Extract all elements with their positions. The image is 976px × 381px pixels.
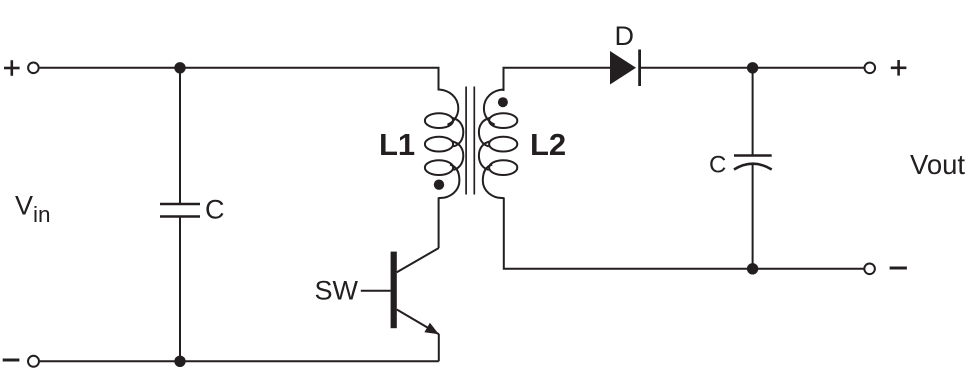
transformer primary winding L1 xyxy=(425,90,463,199)
wire output cap top lead xyxy=(752,68,754,156)
wire output cap bottom lead xyxy=(752,165,754,269)
terminal - (output negative) xyxy=(890,267,907,270)
terminal + (output positive) xyxy=(891,60,907,76)
wire L2 top lead to diode anode xyxy=(504,68,611,91)
input + terminal circle xyxy=(28,63,39,74)
svg-text:L1: L1 xyxy=(379,127,415,162)
output + terminal circle xyxy=(865,63,876,74)
svg-text:L2: L2 xyxy=(530,127,566,162)
svg-text:Vout: Vout xyxy=(910,149,965,180)
diode D xyxy=(610,50,640,87)
transistor SW (NPN) xyxy=(361,248,439,334)
L1 polarity dot xyxy=(434,180,444,190)
wire emitter to bottom rail xyxy=(438,334,440,361)
input - terminal circle xyxy=(28,356,39,367)
wire bottom-left rail xyxy=(40,360,439,362)
node input bottom junction xyxy=(174,356,185,367)
wire input cap bottom lead xyxy=(179,217,181,362)
wire diode cathode to output + terminal xyxy=(641,67,864,69)
capacitor C2 (output, polarized) xyxy=(734,156,772,170)
wire bottom-right rail xyxy=(753,268,865,270)
output - terminal circle xyxy=(864,264,875,275)
wire input cap top lead xyxy=(179,68,181,204)
transformer secondary winding L2 xyxy=(479,90,517,199)
node output top junction xyxy=(747,62,758,73)
wire top-left rail xyxy=(40,68,439,91)
wire L2 bottom lead to output bottom rail xyxy=(504,198,753,269)
svg-text:C: C xyxy=(205,195,225,225)
node input top junction xyxy=(174,62,185,73)
node output bottom junction xyxy=(747,263,758,274)
L2 polarity dot xyxy=(498,97,508,107)
terminal - (input negative) xyxy=(3,359,20,362)
svg-text:D: D xyxy=(615,21,635,51)
svg-text:C: C xyxy=(709,152,726,179)
capacitor C1 (input) xyxy=(160,204,200,217)
svg-text:SW: SW xyxy=(315,276,359,306)
transformer core xyxy=(466,87,474,195)
wire collector lead (L1 bottom to transistor) xyxy=(438,198,440,249)
terminal + (input positive) xyxy=(4,60,20,76)
